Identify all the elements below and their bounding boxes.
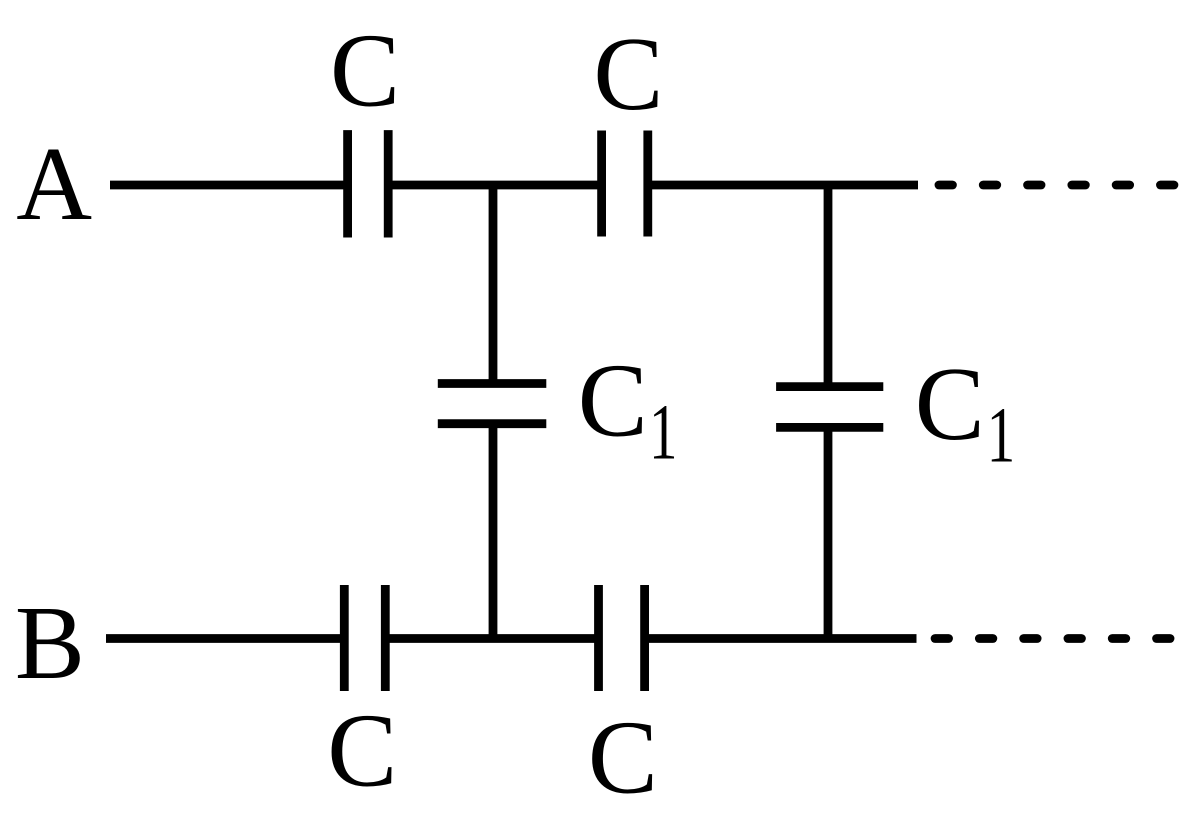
svg-text:C: C bbox=[593, 15, 663, 132]
svg-text:C: C bbox=[327, 692, 397, 809]
svg-text:C: C bbox=[330, 11, 400, 128]
svg-text:C: C bbox=[578, 342, 648, 459]
svg-text:A: A bbox=[16, 125, 92, 242]
svg-text:1: 1 bbox=[987, 391, 1015, 478]
svg-text:B: B bbox=[15, 584, 85, 701]
svg-text:C: C bbox=[915, 345, 985, 462]
svg-text:1: 1 bbox=[649, 388, 677, 475]
svg-text:C: C bbox=[588, 699, 658, 816]
